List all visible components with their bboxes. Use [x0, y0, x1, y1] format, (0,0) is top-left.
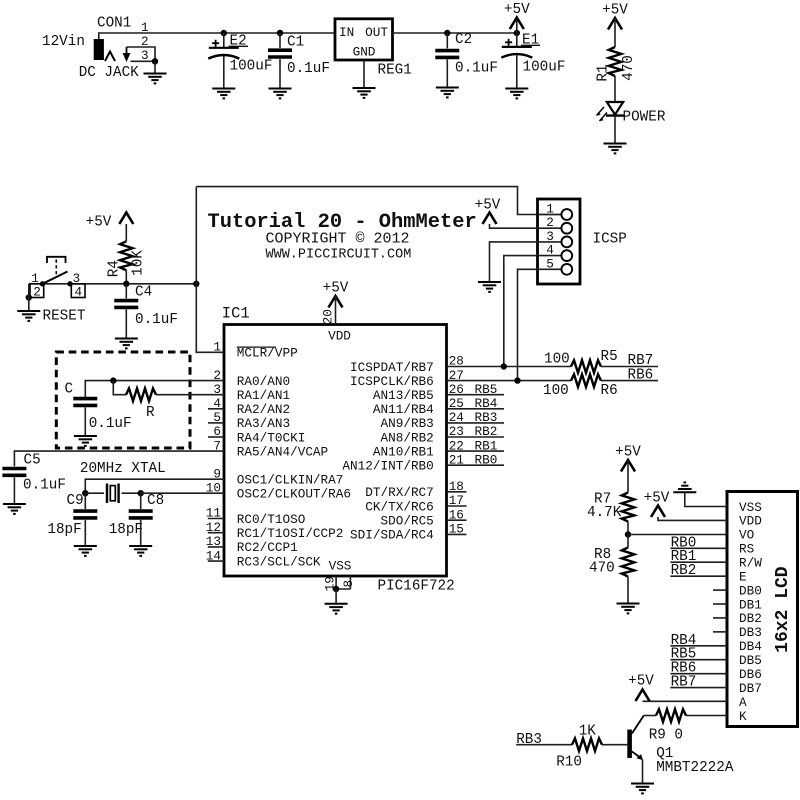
svg-text:RB6: RB6	[628, 368, 654, 384]
svg-text:K: K	[739, 709, 747, 724]
svg-text:C4: C4	[135, 285, 152, 301]
ground below C9	[74, 546, 97, 556]
svg-text:CON1: CON1	[97, 16, 131, 32]
wire E1 stem bottom	[516, 55, 518, 88]
wire vcc to R7	[627, 460, 629, 493]
wire junction to R8	[627, 535, 629, 548]
svg-text:+5V: +5V	[323, 281, 349, 297]
svg-text:18pF: 18pF	[109, 522, 143, 538]
svg-text:+5V: +5V	[86, 215, 112, 231]
voltage regulator REG1 box	[335, 19, 393, 60]
svg-text:RA5/AN4/VCAP: RA5/AN4/VCAP	[237, 444, 328, 459]
junction R C node	[110, 377, 116, 383]
svg-text:4: 4	[75, 284, 83, 299]
IC U1 PIC16F722 box	[224, 325, 447, 577]
svg-text:RA3/AN3: RA3/AN3	[237, 416, 290, 431]
svg-text:+5V: +5V	[628, 674, 654, 690]
wire ICSP pin3 to ground	[490, 242, 538, 281]
switch S1 RESET	[30, 257, 85, 300]
svg-text:REG1: REG1	[378, 63, 412, 79]
IC1 pin 13 label RC2/CCP1	[206, 534, 298, 555]
IC1 pin 18 stub	[447, 491, 467, 493]
wire REG1 OUT to E1	[393, 32, 517, 34]
wire jack pin3	[131, 60, 156, 62]
svg-text:10K: 10K	[131, 250, 147, 276]
svg-text:R1: R1	[596, 64, 612, 81]
IC1 pin 15 stub	[447, 533, 467, 535]
svg-text:R6: R6	[601, 383, 618, 399]
ground below C2	[436, 88, 459, 98]
svg-text:GND: GND	[353, 45, 376, 60]
wire R5 to RB7 end	[601, 366, 658, 368]
node E2 junction	[221, 30, 227, 36]
svg-text:AN8/RB2: AN8/RB2	[381, 430, 434, 445]
svg-text:DB3: DB3	[739, 625, 762, 640]
svg-text:0.1uF: 0.1uF	[135, 312, 178, 328]
wire title top to ICSP pin1	[196, 187, 561, 215]
svg-text:R: R	[146, 405, 155, 421]
svg-text:VO: VO	[739, 528, 754, 543]
svg-text:RC3/SCL/SCK: RC3/SCL/SCK	[237, 554, 321, 569]
svg-text:RS: RS	[739, 542, 754, 557]
svg-text:100uF: 100uF	[230, 59, 273, 75]
svg-text:RC0/T1OSO: RC0/T1OSO	[237, 512, 306, 527]
wire R8 to ground	[627, 577, 629, 603]
LCD DB0 stub	[713, 589, 727, 591]
svg-text:12Vin: 12Vin	[42, 34, 85, 50]
svg-text:0.1uF: 0.1uF	[89, 416, 132, 432]
junction crystal right	[138, 490, 144, 496]
svg-text:+5V: +5V	[615, 445, 641, 461]
wire ICSP pin5 to RB6	[518, 269, 538, 380]
svg-text:SDI/SDA/RC4: SDI/SDA/RC4	[350, 528, 434, 543]
svg-text:4.7K: 4.7K	[587, 505, 622, 521]
IC1 pin 23 label AN8/RB2	[381, 424, 464, 445]
resistor R6	[571, 374, 601, 387]
svg-text:5: 5	[546, 256, 554, 271]
svg-text:+5V: +5V	[602, 3, 628, 19]
wire C to ground	[84, 407, 86, 436]
IC1 pin 4 label RA2/AN2	[213, 396, 290, 417]
junction MCLR node	[193, 281, 199, 287]
connector ICSP box	[538, 199, 581, 284]
IC1 pin 15 label SDI/SDA/RC4	[350, 522, 464, 543]
capacitor C4 symbol	[114, 301, 138, 308]
IC1 pin 17 label CK/TX/RC6	[365, 493, 464, 514]
svg-text:OSC1/CLKIN/RA7: OSC1/CLKIN/RA7	[237, 473, 344, 488]
resistor R9	[656, 709, 686, 722]
IC1 pin 5 stub	[208, 422, 224, 424]
svg-text:RB3: RB3	[516, 732, 542, 748]
svg-text:DC JACK: DC JACK	[79, 65, 139, 81]
capacitor C symbol	[73, 399, 97, 406]
svg-text:VSS: VSS	[739, 500, 762, 515]
IC1 pin 6 stub	[208, 436, 224, 438]
svg-text:DB0: DB0	[739, 583, 762, 598]
svg-text:+5V: +5V	[475, 198, 501, 214]
ground below VSS	[325, 604, 348, 614]
svg-text:DT/RX/RC7: DT/RX/RC7	[365, 485, 434, 500]
svg-text:AN9/RB3: AN9/RB3	[381, 416, 434, 431]
IC1 pin 10 label OSC2/CLKOUT/RA6	[206, 480, 351, 501]
wire C8 stem	[140, 493, 142, 509]
svg-text:E: E	[739, 569, 747, 584]
net RB4 to LCD DB4	[670, 633, 727, 649]
wire reset net	[29, 283, 197, 285]
svg-text:C1: C1	[287, 35, 304, 51]
wire R9 to collector	[644, 715, 656, 717]
power flag +5V at LCD VDD	[644, 491, 670, 518]
svg-text:R10: R10	[556, 755, 582, 771]
svg-text:RA2/AN2: RA2/AN2	[237, 402, 290, 417]
svg-text:19: 19	[323, 576, 338, 591]
wire R4 to junction	[125, 270, 127, 284]
wire pin2 net to C	[85, 381, 224, 397]
wire pin27 to R6	[447, 380, 572, 382]
svg-text:20: 20	[321, 309, 336, 324]
svg-text:0.1uF: 0.1uF	[455, 61, 498, 77]
junction jack pin3	[152, 58, 158, 64]
resistor R8	[622, 548, 635, 577]
LCD DB2 stub	[713, 617, 727, 619]
IC1 pin 24 label AN9/RB3	[381, 410, 464, 431]
svg-text:R/W: R/W	[739, 556, 762, 571]
capacitor E2 symbol	[208, 40, 239, 59]
svg-text:ICSPDAT/RB7: ICSPDAT/RB7	[350, 360, 434, 375]
svg-text:RB0: RB0	[475, 452, 498, 467]
wire LED to ground	[614, 116, 616, 143]
IC1 pin 25 label AN11/RB4	[373, 396, 464, 417]
svg-text:DB1: DB1	[739, 597, 762, 612]
ground below switch	[17, 311, 40, 321]
wire R to pin3	[156, 394, 224, 396]
capacitor C5 symbol	[2, 469, 26, 476]
svg-text:100: 100	[543, 383, 569, 399]
IC1 pin 11 label RC0/T1OSO	[206, 506, 306, 527]
net RB1 stub on pin 22	[447, 438, 505, 453]
ground below C1	[269, 89, 292, 99]
ground below LED	[604, 144, 627, 154]
svg-text:RB3: RB3	[475, 410, 498, 425]
resistor R7	[622, 493, 635, 522]
svg-text:18pF: 18pF	[47, 522, 81, 538]
svg-text:DB5: DB5	[739, 653, 762, 668]
svg-text:RB2: RB2	[475, 424, 498, 439]
label E1	[521, 33, 540, 49]
wire C8 to ground	[140, 520, 142, 545]
IC1 pin 16 label SDO/RC5	[381, 507, 464, 528]
svg-text:RA4/T0CKI: RA4/T0CKI	[237, 430, 306, 445]
IC1 pin 1 label MCLR/VPP	[213, 340, 297, 361]
net RB2 to LCD E	[670, 563, 727, 579]
net RB1 to LCD R/W	[670, 549, 727, 565]
ground below Q1	[631, 784, 654, 794]
label E2	[229, 34, 249, 50]
ICSP pin 1 pad	[538, 202, 573, 220]
svg-text:VSS: VSS	[329, 559, 352, 574]
net RB3 stub on pin 24	[447, 410, 505, 425]
svg-text:POWER: POWER	[623, 110, 666, 126]
svg-text:0.1uF: 0.1uF	[287, 61, 330, 77]
VSS pin stubs 19 and 8	[336, 576, 350, 589]
svg-text:A: A	[739, 695, 747, 710]
wire R10 to base	[602, 744, 627, 746]
net RB5 stub on pin 26	[447, 382, 505, 397]
net RB0 to LCD RS	[670, 535, 727, 551]
svg-text:IN: IN	[339, 25, 354, 40]
ICSP pin 2 pad	[538, 215, 573, 233]
LCD connector box	[727, 492, 798, 727]
IC1 pin 17 stub	[447, 505, 467, 507]
ICSP pin 5 pad	[538, 256, 573, 274]
net RB7 to LCD DB7	[670, 675, 727, 691]
svg-text:DB7: DB7	[739, 681, 762, 696]
svg-text:470: 470	[589, 561, 615, 577]
IC1 pin 13 stub	[208, 546, 224, 548]
IC1 pin 12 label RC1/T1OSI/CCP2	[206, 520, 344, 541]
svg-text:R5: R5	[601, 349, 618, 365]
LCD DB3 stub	[713, 631, 727, 633]
wire C2 stem bottom	[446, 59, 448, 86]
svg-text:WWW.PICCIRCUIT.COM: WWW.PICCIRCUIT.COM	[266, 248, 412, 263]
crystal Q2 20MHz	[107, 484, 119, 504]
IC1 pin 21 label AN12/INT/RB0	[342, 452, 464, 473]
LCD DB1 stub	[713, 603, 727, 605]
node C1 junction	[277, 30, 283, 36]
wire switch to ground	[28, 284, 30, 310]
svg-text:DB4: DB4	[739, 639, 762, 654]
junction crystal left	[82, 490, 88, 496]
svg-text:1: 1	[31, 271, 39, 286]
jack tip contact	[105, 52, 115, 62]
wire MCLR vertical to pin1	[196, 187, 224, 353]
svg-text:1: 1	[141, 20, 149, 35]
power flag +5V at ICSP pin2	[475, 198, 501, 225]
wire vcc to R4	[125, 224, 127, 241]
capacitor C8 symbol	[129, 511, 153, 518]
IC1 pin 18 label DT/RX/RC7	[365, 479, 464, 500]
svg-text:ICSP: ICSP	[593, 232, 627, 248]
IC1 pin 5 label RA3/AN3	[213, 410, 290, 431]
IC1 pin 9 label OSC1/CLKIN/RA7	[213, 466, 343, 487]
resistor R1	[609, 47, 622, 76]
IC1 pin 11 stub	[208, 518, 224, 520]
ground below DC jack	[144, 74, 167, 84]
svg-text:RESET: RESET	[43, 309, 86, 325]
svg-text:3: 3	[73, 271, 81, 286]
svg-text:MCLR/VPP: MCLR/VPP	[237, 346, 298, 361]
capacitor C2 symbol	[435, 51, 459, 58]
ICSP pin 4 pad	[538, 243, 573, 261]
svg-text:RB7: RB7	[628, 353, 654, 369]
svg-text:RB7: RB7	[671, 675, 697, 691]
svg-text:RA0/AN0: RA0/AN0	[237, 374, 290, 389]
wire pin3 to ground	[154, 61, 156, 72]
wire R6 to RB6 end	[601, 380, 658, 382]
ground below E1	[505, 89, 528, 99]
svg-text:MMBT2222A: MMBT2222A	[656, 760, 734, 776]
svg-text:PIC16F722: PIC16F722	[378, 579, 455, 595]
IC1 pin 14 stub	[208, 560, 224, 562]
resistor R	[126, 388, 156, 401]
svg-text:CK/TX/RC6: CK/TX/RC6	[365, 499, 434, 514]
svg-text:DB6: DB6	[739, 667, 762, 682]
IC1 pin 3 label RA1/AN1	[213, 382, 290, 403]
svg-text:AN11/RB4: AN11/RB4	[373, 402, 434, 417]
svg-text:RB1: RB1	[475, 438, 498, 453]
ground below R8	[617, 604, 640, 614]
svg-text:OUT: OUT	[365, 25, 388, 40]
svg-text:C5: C5	[24, 453, 41, 469]
svg-text:470: 470	[621, 55, 637, 81]
node C2 junction	[444, 30, 450, 36]
wire crystal left lead	[85, 492, 104, 494]
power flag +5V at R4	[86, 213, 134, 231]
ICSP pin 3 pad	[538, 229, 573, 247]
wire VO net	[628, 534, 727, 536]
wire E1 stem top	[516, 33, 518, 47]
IC1 pin 6 label RA4/T0CKI	[213, 424, 305, 445]
svg-text:RA1/AN1: RA1/AN1	[237, 388, 290, 403]
wire LCD K to R9	[686, 715, 727, 717]
power flag +5V at LCD A	[628, 674, 654, 702]
ground below C	[74, 436, 97, 446]
ground below E2	[212, 89, 235, 99]
svg-text:0.1uF: 0.1uF	[23, 478, 66, 494]
measurement dashed box	[56, 352, 190, 448]
wire C2 stem top	[446, 33, 448, 48]
svg-text:R4: R4	[107, 260, 123, 277]
svg-text:C2: C2	[455, 32, 472, 48]
wire VSS pin	[685, 492, 727, 506]
svg-text:OSC2/CLKOUT/RA6: OSC2/CLKOUT/RA6	[237, 487, 351, 502]
wire vcc to VDD pin 20	[335, 296, 337, 325]
IC1 pin 4 stub	[208, 408, 224, 410]
junction R4 C4 node	[123, 281, 129, 287]
IC1 pin 14 label RC3/SCL/SCK	[206, 548, 321, 569]
svg-text:+5V: +5V	[644, 491, 670, 507]
svg-text:DB2: DB2	[739, 611, 762, 626]
capacitor C1 symbol	[268, 50, 292, 57]
wire ICSP pin2 to vcc	[490, 224, 538, 228]
wire emitter to ground	[642, 760, 644, 783]
wire LCD A pin	[643, 700, 728, 702]
power flag +5V at E1	[504, 2, 530, 29]
ground below C4	[115, 339, 138, 349]
net RB2 stub on pin 23	[447, 424, 505, 439]
svg-text:20MHz XTAL: 20MHz XTAL	[80, 461, 166, 477]
svg-text:100uF: 100uF	[523, 60, 566, 76]
ground below ICSP pin3	[478, 282, 501, 292]
svg-text:C8: C8	[147, 493, 164, 509]
wire C4 to ground	[125, 309, 127, 337]
net RB3	[516, 732, 572, 748]
wire CON1 pin1 to regulator IN	[99, 33, 335, 39]
jack switch arrow	[123, 47, 131, 62]
svg-text:16x2 LCD: 16x2 LCD	[773, 566, 793, 653]
wire pin28 to R5	[447, 366, 572, 368]
IC1 pin 2 label RA0/AN0	[213, 368, 290, 389]
svg-text:C9: C9	[67, 493, 84, 509]
inverted ground at LCD VSS	[673, 482, 696, 492]
svg-text:100: 100	[544, 352, 570, 368]
junction switch pin2	[26, 294, 32, 300]
svg-text:AN12/INT/RB0: AN12/INT/RB0	[342, 459, 433, 474]
IC1 pin 28 label ICSPDAT/RB7	[350, 354, 464, 375]
wire C5 to ground	[13, 477, 15, 503]
svg-text:RB2: RB2	[671, 563, 697, 579]
ground below C8	[129, 546, 152, 556]
wire C1 stem bottom	[279, 59, 281, 88]
svg-text:VDD: VDD	[739, 514, 762, 529]
svg-text:RC1/T1OSI/CCP2: RC1/T1OSI/CCP2	[237, 526, 344, 541]
wire crystal to pin10	[141, 492, 224, 494]
wire E2 stem top	[223, 33, 225, 48]
IC1 pin 27 label ICSPCLK/RB6	[350, 368, 464, 389]
wire C1 stem top	[279, 33, 281, 48]
transistor Q1 MMBT2222A	[627, 716, 644, 761]
IC1 pin 26 label AN13/RB5	[373, 382, 464, 403]
resistor R10	[572, 738, 602, 751]
svg-text:2: 2	[33, 284, 41, 299]
svg-text:R9 0: R9 0	[649, 728, 683, 744]
svg-text:C: C	[65, 382, 74, 398]
resistor R5	[571, 360, 601, 373]
power flag +5V at VDD	[323, 281, 349, 308]
junction ICSP4 RB7	[501, 363, 507, 369]
DC jack body	[94, 39, 104, 60]
power flag +5V at R1	[602, 3, 628, 30]
ground below REG1	[353, 88, 376, 98]
wire E1 to vcc	[516, 18, 518, 34]
svg-text:E2: E2	[230, 34, 247, 50]
wire pin7 to C5	[14, 451, 224, 466]
wire vcc to R1	[614, 18, 616, 47]
wire VDD pin	[658, 517, 727, 520]
junction VSS node	[333, 586, 339, 592]
wire C9 to ground	[84, 520, 86, 545]
wire jack pin2 loop	[127, 47, 156, 61]
net RB6 to LCD DB6	[670, 661, 727, 677]
node E1 junction	[514, 30, 520, 36]
wire R7 to junction	[627, 522, 629, 535]
wire ICSP pin4 to RB7	[504, 256, 538, 367]
IC1 pin 12 stub	[208, 532, 224, 534]
svg-text:SDO/RC5: SDO/RC5	[381, 514, 434, 529]
svg-text:1: 1	[213, 340, 221, 355]
LED D1 POWER	[597, 102, 625, 121]
net RB4 stub on pin 25	[447, 396, 505, 411]
capacitor E1 symbol	[501, 39, 532, 58]
svg-text:8: 8	[341, 580, 356, 588]
wire junction to R	[113, 381, 126, 395]
wire REG1 GND pin	[363, 60, 365, 87]
svg-text:IC1: IC1	[222, 305, 250, 323]
net RB0 stub on pin 21	[447, 452, 505, 467]
svg-text:AN10/RB1: AN10/RB1	[373, 444, 434, 459]
net RB5 to LCD DB5	[670, 647, 727, 663]
IC1 pin 16 stub	[447, 519, 467, 521]
power flag +5V at R7	[615, 445, 641, 472]
junction VO node	[625, 531, 631, 537]
wire junction to C4	[125, 284, 127, 299]
svg-text:VDD: VDD	[328, 329, 351, 344]
resistor R4	[120, 241, 133, 270]
svg-text:RC2/CCP1: RC2/CCP1	[237, 540, 298, 555]
svg-text:+5V: +5V	[504, 2, 530, 18]
svg-text:COPYRIGHT © 2012: COPYRIGHT © 2012	[266, 231, 410, 248]
wire crystal right lead	[122, 492, 141, 494]
